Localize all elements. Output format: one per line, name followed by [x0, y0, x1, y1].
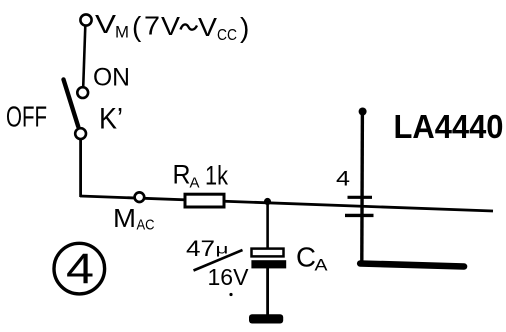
- svg-text:M: M: [113, 203, 136, 233]
- svg-text:AC: AC: [137, 217, 155, 234]
- svg-text:V: V: [161, 11, 181, 41]
- svg-text:V: V: [198, 12, 218, 42]
- svg-text:47: 47: [186, 236, 215, 261]
- svg-text:4: 4: [336, 168, 350, 191]
- svg-text:K’: K’: [99, 103, 123, 136]
- svg-text:M: M: [115, 23, 129, 42]
- svg-text:μ: μ: [216, 241, 229, 257]
- svg-text:1k: 1k: [205, 161, 228, 191]
- svg-text:A: A: [190, 175, 200, 192]
- svg-text:): ): [240, 12, 249, 43]
- svg-text:4: 4: [66, 245, 94, 293]
- svg-text:LA4440: LA4440: [394, 108, 504, 145]
- svg-text:V: V: [95, 9, 117, 39]
- svg-text:C: C: [296, 242, 316, 273]
- svg-text:(: (: [132, 11, 142, 42]
- svg-text:R: R: [173, 160, 191, 190]
- svg-text:CC: CC: [217, 27, 237, 44]
- svg-text:OFF: OFF: [6, 102, 47, 134]
- svg-text:16V: 16V: [208, 264, 250, 290]
- svg-text:A: A: [315, 256, 329, 275]
- svg-text:7: 7: [144, 11, 160, 41]
- svg-text:ON: ON: [93, 64, 130, 92]
